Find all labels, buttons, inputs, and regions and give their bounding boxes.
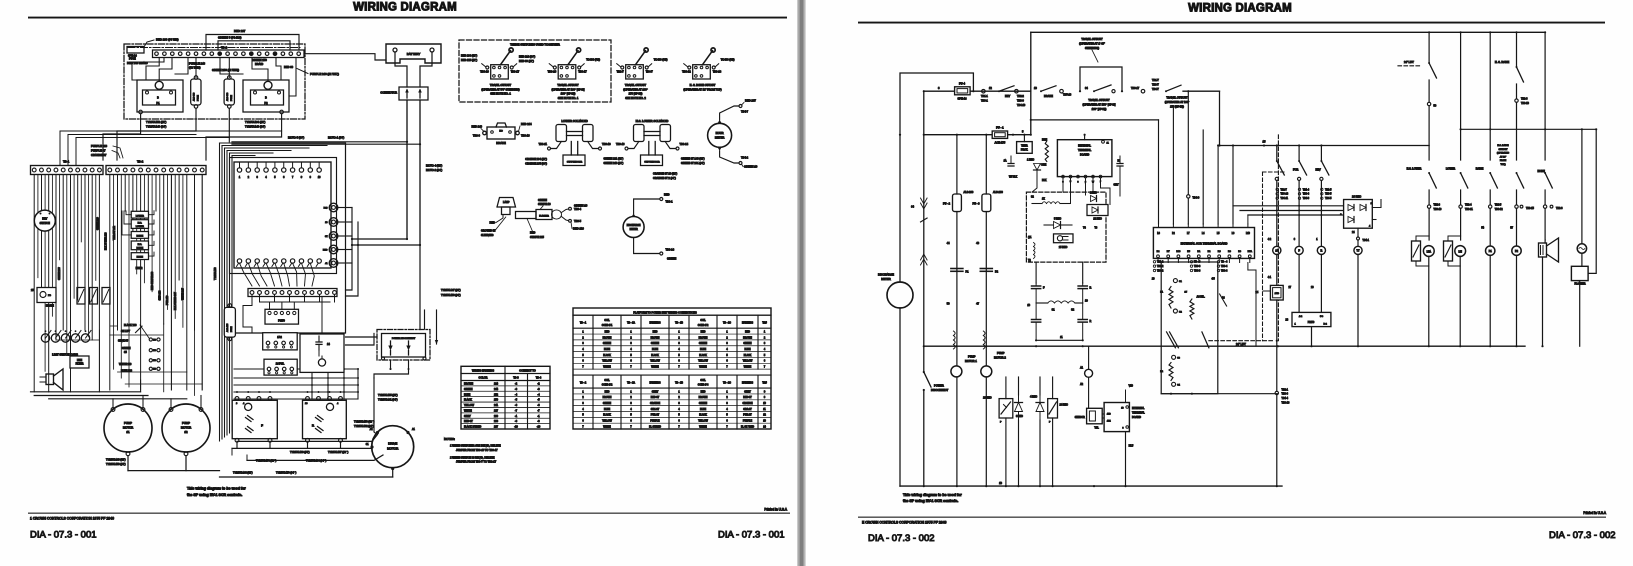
svg-text:TERMINAL: TERMINAL — [1132, 412, 1145, 415]
svg-text:LOWER: LOWER — [136, 215, 144, 217]
svg-text:MOTOR: MOTOR — [181, 426, 191, 430]
svg-text:1A: 1A — [1275, 250, 1278, 253]
svg-text:GREEN 221 (42"): GREEN 221 (42") — [604, 158, 624, 161]
svg-text:PUR 218: PUR 218 — [167, 295, 169, 305]
svg-text:TB4-3: TB4-3 — [1194, 270, 1201, 272]
wire main drop to TB2-1 — [1275, 341, 1290, 488]
relay box H.S. RAISE — [131, 241, 148, 250]
external SCR terminal board — [1153, 224, 1254, 258]
svg-text:CONNECTOR: CONNECTOR — [380, 91, 397, 95]
svg-text:GREEN ST 146 (42"): GREEN ST 146 (42") — [681, 158, 705, 161]
svg-text:PUR ST: PUR ST — [743, 415, 752, 417]
labels TYMAX below P2 — [245, 120, 266, 128]
svg-text:237: 237 — [494, 426, 499, 429]
svg-text:GREY: GREY — [744, 391, 751, 393]
feeder to terminal board rail — [1030, 119, 1159, 121]
main control wire — [923, 86, 1031, 92]
svg-text:LOWER: LOWER — [136, 226, 144, 228]
svg-text:BROWN: BROWN — [699, 397, 708, 399]
svg-text:HRN2: HRN2 — [136, 267, 143, 270]
fuse ALS-300 F2 — [224, 76, 234, 109]
wires right of 26 REC — [1372, 200, 1381, 220]
svg-text:PURPLE: PURPLE — [743, 421, 753, 423]
svg-text:TB3-14: TB3-14 — [666, 248, 675, 252]
svg-text:TB1-4: TB1-4 — [1303, 189, 1310, 191]
svg-text:TO400 (AB): TO400 (AB) — [721, 58, 735, 62]
svg-text:RED 245 BRAID: RED 245 BRAID — [127, 61, 148, 65]
svg-text:TERMINAL: TERMINAL — [1078, 148, 1092, 152]
svg-text:GREEN 208 (52 WH2): GREEN 208 (52 WH2) — [212, 68, 239, 72]
svg-text:BLACK: BLACK — [603, 414, 611, 417]
horn speaker — [40, 369, 63, 390]
svg-text:GREY: GREY — [464, 415, 471, 418]
svg-text:YELLOW 212: YELLOW 212 — [114, 225, 116, 240]
svg-text:FROM: FROM — [1500, 160, 1507, 162]
svg-text:FUSE: FUSE — [198, 95, 200, 101]
svg-text:TB3-16: TB3-16 — [616, 142, 625, 146]
svg-text:TB4-2: TB4-2 — [741, 156, 749, 160]
svg-text:TB3-1: TB3-1 — [666, 200, 674, 204]
svg-text:GREEN: GREEN — [603, 403, 612, 405]
svg-text:FU - 3: FU - 3 — [973, 203, 981, 206]
svg-text:H.S.: H.S. — [138, 223, 143, 225]
svg-text:(OPERATES AT 190°: (OPERATES AT 190° — [623, 87, 648, 91]
svg-text:Printed in U.S.A: Printed in U.S.A — [1583, 511, 1607, 515]
svg-text:RED 204 (42"): RED 204 (42") — [461, 55, 477, 58]
svg-text:TB3-14: TB3-14 — [1281, 194, 1289, 196]
rectifier 24 REC — [1048, 399, 1068, 424]
capacitor IC — [1117, 156, 1123, 196]
svg-text:TYMAX-162 (34"): TYMAX-162 (34") — [354, 425, 374, 428]
svg-text:TB3-15: TB3-15 — [1526, 207, 1535, 210]
svg-text:1A2: 1A2 — [277, 336, 282, 339]
rectifier 5 REC — [1044, 217, 1072, 228]
svg-text:METER: METER — [881, 277, 890, 281]
svg-text:JUMPER FROM TB3-7 TO TB2-17: JUMPER FROM TB3-7 TO TB2-17 — [456, 460, 497, 464]
svg-text:TB5-16: TB5-16 — [1063, 94, 1072, 97]
svg-text:P1: P1 — [156, 101, 160, 105]
svg-text:COIL: COIL — [700, 380, 706, 382]
svg-text:WHITE: WHITE — [699, 426, 707, 428]
svg-text:TYMAX-144 (42"): TYMAX-144 (42") — [233, 471, 253, 474]
svg-text:FOR: FOR — [1293, 168, 1298, 171]
svg-text:BLK: BLK — [1042, 179, 1047, 182]
svg-text:TB2-7: TB2-7 — [617, 70, 625, 74]
svg-text:GROUND IN: GROUND IN — [481, 230, 496, 233]
svg-text:22 REC: 22 REC — [1093, 217, 1102, 220]
wires TB-2 panel to center bundle — [60, 131, 282, 166]
svg-text:METER: METER — [630, 229, 638, 231]
svg-text:PURPLE 87: PURPLE 87 — [91, 148, 106, 152]
pump motor 1 — [104, 404, 152, 456]
capacitor F upper — [1032, 283, 1046, 303]
brake switch blade page2 — [1034, 86, 1072, 98]
svg-text:E CROWN CONTROLS CORPORATION: E CROWN CONTROLS CORPORATION 1975 PF 284… — [862, 521, 946, 525]
svg-text:TB2-5: TB2-5 — [1495, 204, 1502, 207]
relay box HORN — [131, 253, 148, 260]
svg-text:TB1-1: TB1-1 — [981, 95, 988, 98]
flasher box — [1571, 128, 1597, 346]
switch row blades — [1427, 172, 1552, 208]
svg-text:PURPLE 218: PURPLE 218 — [91, 144, 107, 148]
svg-text:PUMP: PUMP — [968, 355, 976, 359]
svg-text:CORD # 2: CORD # 2 — [602, 385, 613, 387]
svg-text:GRY: GRY — [1114, 184, 1120, 187]
svg-text:TYMAX-147 (32"): TYMAX-147 (32") — [441, 289, 461, 292]
svg-text:KEY: KEY — [42, 217, 47, 221]
svg-text:(OPERATES AT 12" FROM TOP): (OPERATES AT 12" FROM TOP) — [683, 87, 721, 91]
svg-text:HARNESS: HARNESS — [649, 381, 661, 384]
svg-text:FUSE: FUSE — [231, 326, 233, 332]
svg-text:HARNESS: HARNESS — [742, 322, 754, 325]
svg-text:(OPERATES AT 190° [SP40]: (OPERATES AT 190° [SP40] — [551, 87, 584, 91]
svg-text:PUR ST: PUR ST — [651, 415, 660, 417]
junction dots page1 mesh — [236, 368, 410, 393]
svg-text:TB3-5: TB3-5 — [1325, 194, 1332, 196]
svg-text:RED 214 (34"): RED 214 (34") — [519, 56, 535, 59]
svg-text:ORANGE 265 (34"): ORANGE 265 (34") — [525, 163, 547, 166]
rectifier 25 REC — [1054, 234, 1074, 249]
capacitor P1 page2 — [951, 269, 969, 274]
svg-text:KEY: KEY — [1005, 94, 1010, 98]
svg-text:TB4-10: TB4-10 — [1017, 104, 1026, 107]
wires board bottom to lower strip — [240, 263, 315, 286]
limit switch cams — [41, 330, 91, 356]
svg-text:FU - 1: FU - 1 — [996, 126, 1004, 130]
svg-text:ORANGE 87: ORANGE 87 — [91, 153, 107, 157]
svg-text:TB-2: TB-2 — [137, 160, 144, 164]
svg-text:TB4-7: TB4-7 — [1152, 88, 1159, 91]
FOR REV switch group — [1275, 144, 1332, 246]
dashed enclosure TB-2 panel — [124, 44, 305, 119]
svg-text:1 WHEN SWITCHES ARE REQ'D,: 1 WHEN SWITCHES ARE REQ'D, DELETE — [450, 444, 501, 448]
svg-text:SEE NOTE NO. 1: SEE NOTE NO. 1 — [558, 96, 579, 100]
svg-text:GREEN: GREEN — [699, 403, 708, 405]
svg-text:24" LIFT: 24" LIFT — [1236, 342, 1246, 346]
svg-text:YELLOW: YELLOW — [650, 361, 660, 363]
svg-text:BLUE: BLUE — [700, 409, 706, 411]
svg-text:BLACK: BLACK — [744, 354, 752, 357]
svg-text:GRA ST: GRA ST — [743, 408, 752, 411]
svg-text:RED: RED — [745, 331, 750, 333]
internal terminal board page2 bottom — [1102, 385, 1145, 487]
svg-text:RED ST: RED ST — [651, 397, 660, 399]
svg-text:1A: 1A — [1004, 160, 1007, 163]
svg-text:TB3-2: TB3-2 — [1157, 266, 1164, 268]
flasher circle — [1577, 129, 1586, 266]
usage note page1 — [187, 487, 246, 497]
svg-text:BLUE: BLUE — [652, 349, 658, 351]
svg-text:(52 WH2): (52 WH2) — [189, 65, 201, 69]
svg-text:BLACK 230: BLACK 230 — [124, 324, 137, 327]
svg-text:TB3-12: TB3-12 — [1495, 208, 1504, 211]
svg-text:(OPERATES AT 5'8" STEERING): (OPERATES AT 5'8" STEERING) — [481, 87, 519, 91]
svg-text:TB4-4: TB4-4 — [1282, 397, 1289, 400]
svg-text:NOTES:: NOTES: — [444, 437, 455, 441]
relay box LOWER — [131, 211, 148, 218]
svg-text:SLEEVING: SLEEVING — [481, 234, 494, 237]
travel cutout switch with bypass loop — [1079, 37, 1123, 111]
svg-text:160° [SP42]): 160° [SP42]) — [1092, 107, 1107, 111]
svg-text:BLUE: BLUE — [744, 349, 750, 351]
page 1 title underline — [28, 17, 787, 19]
svg-text:RED ST: RED ST — [743, 397, 752, 399]
terminal strip TB-2 left — [106, 160, 206, 175]
svg-text:V10: V10 — [1129, 385, 1134, 388]
svg-text:FILTER: FILTER — [76, 364, 84, 366]
relay 1AD — [1256, 285, 1284, 341]
wires rectifier bank to buses — [1006, 377, 1053, 486]
svg-text:SEE NOTE NO. 2: SEE NOTE NO. 2 — [625, 96, 646, 100]
wire bundle left of SCR panel — [214, 143, 345, 441]
svg-text:BL ST/RED: BL ST/RED — [649, 426, 661, 428]
svg-text:TB - 1A: TB - 1A — [627, 322, 635, 325]
svg-text:HOUR: HOUR — [716, 131, 724, 135]
svg-text:SPE-14: SPE-14 — [958, 97, 967, 101]
svg-text:RED 244: RED 244 — [521, 122, 532, 126]
wires inside TB-2 panel — [132, 58, 296, 97]
wire 15 distribution — [1217, 91, 1429, 224]
svg-text:GREY: GREY — [652, 391, 659, 393]
svg-text:TB2-3: TB2-3 — [1434, 204, 1441, 207]
svg-text:POWER DISCONNECT: POWER DISCONNECT — [392, 338, 416, 340]
left block horizontal jogs — [56, 335, 202, 384]
svg-text:PUMP: PUMP — [997, 351, 1005, 355]
coil 1A — [1268, 239, 1281, 285]
svg-text:GREEN 208: GREEN 208 — [59, 267, 61, 280]
horn symbol page2 — [1539, 208, 1559, 347]
svg-text:TB4-9: TB4-9 — [1193, 197, 1200, 200]
bottom bus page2 — [900, 482, 1282, 487]
svg-text:SILVE 85: SILVE 85 — [118, 340, 129, 343]
svg-text:RED: RED — [605, 331, 610, 333]
small harness table — [461, 366, 550, 429]
svg-text:LAMP: LAMP — [503, 201, 510, 204]
dashed box THESE SWITCHES USED TOGETHER — [459, 40, 611, 102]
svg-text:TB-1: TB-1 — [63, 160, 70, 164]
terminal strip TB-2 — [128, 45, 304, 57]
svg-text:252: 252 — [494, 393, 499, 396]
switch row labels — [1407, 144, 1545, 173]
svg-text:POWER: POWER — [934, 383, 944, 387]
mid horizontal bus — [923, 345, 1525, 347]
svg-text:This wiring diagram to be used: This wiring diagram to be used for — [187, 487, 246, 491]
svg-text:GREEN: GREEN — [667, 257, 676, 261]
svg-text:RED: RED — [490, 221, 496, 225]
svg-text:RED 116: RED 116 — [573, 227, 584, 231]
svg-text:TB - 1: TB - 1 — [580, 323, 587, 325]
svg-text:THER: THER — [1021, 145, 1028, 148]
svg-text:TB3-17: TB3-17 — [1131, 87, 1140, 90]
svg-text:TB-4: TB-4 — [536, 377, 542, 380]
svg-text:TB4-5: TB4-5 — [1325, 198, 1332, 200]
svg-text:WIRING DIAGRAM: WIRING DIAGRAM — [353, 2, 457, 14]
svg-text:TB3-18: TB3-18 — [1282, 402, 1291, 405]
svg-text:BROWN: BROWN — [743, 337, 752, 339]
svg-text:TB2-6: TB2-6 — [1556, 207, 1563, 210]
svg-text:TYMAX-148 (42"): TYMAX-148 (42") — [106, 458, 126, 461]
fuse FU-1 ACE-175 — [923, 126, 1032, 145]
svg-text:PLATFORM TO POWER UNIT: PLATFORM TO POWER UNIT WIRING CONNECTION… — [633, 311, 697, 314]
connector — [380, 87, 428, 100]
svg-text:BLACK: BLACK — [651, 354, 659, 357]
svg-text:PURPLE 246 (52 W17): PURPLE 246 (52 W17) — [310, 72, 339, 76]
H.S. raise cutout switch top — [1495, 60, 1530, 160]
junction mesh below panel — [234, 368, 359, 399]
wires pump motors — [113, 396, 220, 471]
svg-text:TRAVEL CUTOUT: TRAVEL CUTOUT — [625, 83, 647, 87]
wire flasher to bus — [0, 0, 1, 1]
svg-text:H. S. RAISE CUTOUT: H. S. RAISE CUTOUT — [690, 83, 716, 87]
wires lower strip to modules — [243, 295, 335, 335]
svg-text:DISCHARGE: DISCHARGE — [627, 224, 641, 227]
svg-text:RAISE: RAISE — [137, 247, 144, 250]
svg-text:TYMAX-150 (34"): TYMAX-150 (34") — [441, 294, 461, 297]
svg-text:GREEN 250: GREEN 250 — [252, 58, 267, 62]
contact stack with color labels — [118, 324, 160, 373]
svg-text:GREEN ST 201 (34"): GREEN ST 201 (34") — [681, 162, 705, 165]
svg-text:YEL: YEL — [1094, 428, 1099, 430]
svg-text:WHITE: WHITE — [651, 367, 659, 369]
svg-text:HORN: HORN — [137, 257, 144, 259]
svg-text:2 WHEN SWITCH IS REQ'D, DEL: 2 WHEN SWITCH IS REQ'D, DELETE — [450, 455, 495, 459]
junction dots mid bus — [955, 345, 1083, 347]
svg-text:BOARD: BOARD — [1080, 153, 1089, 157]
toggle switch travel cutout 1 — [461, 48, 535, 96]
svg-text:TB3-1: TB3-1 — [981, 100, 988, 103]
svg-text:TRAVEL CUTOUT: TRAVEL CUTOUT — [490, 83, 512, 87]
svg-text:RED 206 (54 WH): RED 206 (54 WH) — [156, 38, 179, 42]
fuse ALS-300 F1 — [191, 76, 201, 109]
svg-text:BOARD: BOARD — [1132, 416, 1141, 419]
svg-text:TB - 4: TB - 4 — [1221, 262, 1228, 264]
svg-text:YELLOW: YELLOW — [743, 361, 753, 363]
svg-text:YELLOW: YELLOW — [698, 361, 708, 363]
sensor box — [1075, 408, 1103, 429]
module 24 PML — [264, 359, 297, 375]
terminal strip TB-1 — [31, 160, 104, 175]
svg-text:CUTOUT: CUTOUT — [1499, 149, 1509, 151]
svg-text:CORD # 2: CORD # 2 — [698, 325, 709, 327]
svg-text:SEE NOTE NO. 1: SEE NOTE NO. 1 — [490, 92, 511, 96]
svg-text:(OPERATES AT 150° [SP42]: (OPERATES AT 150° [SP42] — [1082, 102, 1115, 106]
svg-text:ORANGE 204 (42"): ORANGE 204 (42") — [525, 158, 547, 161]
svg-text:TB4-4: TB4-4 — [1221, 270, 1228, 272]
svg-text:YELLOW: YELLOW — [602, 361, 612, 363]
svg-text:GREEN: GREEN — [743, 343, 752, 345]
fuse blocks F R — [77, 288, 110, 305]
usage note page2 — [903, 493, 962, 503]
svg-text:TB4-11: TB4-11 — [1281, 198, 1289, 200]
rotated wire color labels — [59, 217, 185, 310]
svg-text:JUMPER FROM TB3-16 TO TB3-: JUMPER FROM TB3-16 TO TB3-17 — [456, 448, 498, 452]
svg-text:L5A: L5A — [1427, 250, 1432, 253]
svg-text:GREEN: GREEN — [699, 343, 708, 345]
svg-text:RED: RED — [664, 193, 670, 197]
capacitor module 14 — [300, 334, 344, 372]
svg-text:Printed in U.S.A: Printed in U.S.A — [764, 508, 788, 512]
svg-text:24 REC: 24 REC — [1060, 403, 1069, 406]
pump motor labels — [106, 458, 126, 466]
svg-text:(OPERATES: (OPERATES — [1497, 152, 1510, 155]
svg-text:GRA ST: GRA ST — [651, 408, 660, 411]
svg-text:This wiring diagram to be used: This wiring diagram to be used for — [903, 493, 962, 497]
svg-text:BRAKE: BRAKE — [1044, 94, 1053, 98]
svg-text:H. S. RAISE: H. S. RAISE — [1495, 60, 1510, 64]
svg-text:TRAVEL CUTOUT: TRAVEL CUTOUT — [1166, 96, 1188, 100]
capacitor P2 page2 — [980, 269, 998, 274]
svg-text:RED 237: RED 237 — [234, 29, 246, 33]
svg-text:250: 250 — [494, 399, 499, 402]
svg-text:RED 246: RED 246 — [471, 125, 482, 129]
svg-text:#1: #1 — [126, 430, 130, 434]
terminal labels row — [1434, 204, 1564, 230]
svg-text:BROWN: BROWN — [651, 337, 660, 339]
label PURPLE 248 (52 WH2) — [189, 61, 205, 69]
extra left verticals — [38, 175, 202, 396]
svg-text:RAISE: RAISE — [137, 234, 144, 237]
svg-text:REV: REV — [1316, 168, 1321, 171]
coil L5A with resistor — [1412, 208, 1435, 347]
svg-text:COIL: COIL — [700, 320, 706, 322]
svg-text:AT 12": AT 12" — [1500, 155, 1507, 158]
drive motor lead labels — [233, 289, 461, 474]
svg-text:COIL: COIL — [604, 380, 610, 382]
svg-text:TYMAX-155 (42"): TYMAX-155 (42") — [378, 394, 398, 397]
svg-text:ORANGE: ORANGE — [743, 402, 753, 405]
page gutter (book binding) — [797, 0, 806, 566]
power disconnect switch page2 — [923, 371, 949, 486]
svg-text:DIA - 07.3 - 001: DIA - 07.3 - 001 — [30, 530, 97, 541]
svg-text:BRAID: BRAID — [255, 62, 263, 66]
svg-text:WHITE: WHITE — [603, 367, 611, 369]
svg-text:WHITE: WHITE — [744, 367, 752, 369]
svg-text:LOWER: LOWER — [1446, 167, 1455, 170]
rectifier bridge 26 REC — [1340, 194, 1372, 246]
module PMT0 page2 — [1285, 312, 1330, 347]
svg-text:STRIPE 225: STRIPE 225 — [530, 236, 545, 239]
power disconnect page1 — [377, 330, 430, 361]
thermal protector — [1017, 134, 1033, 154]
rectifier 22 REC — [1087, 205, 1108, 221]
rectifier 3 REC diode — [1015, 395, 1024, 420]
hour meter — [708, 99, 758, 169]
svg-text:TB3-10: TB3-10 — [1434, 208, 1443, 211]
svg-text:R: R — [1090, 320, 1092, 323]
svg-text:TO400 (AB): TO400 (AB) — [586, 58, 600, 62]
svg-text:TB - 2A: TB - 2A — [627, 381, 635, 384]
svg-text:238: 238 — [494, 420, 499, 423]
svg-text:R: R — [1321, 250, 1323, 253]
svg-text:TB3-4: TB3-4 — [1221, 266, 1228, 268]
svg-text:CORD # 4: CORD # 4 — [698, 385, 709, 387]
svg-text:ORANGE ST 2 (34"): ORANGE ST 2 (34") — [653, 177, 676, 180]
svg-text:(OPERATES AT 190°: (OPERATES AT 190° — [1165, 100, 1190, 104]
svg-text:25 REC: 25 REC — [1059, 246, 1068, 249]
svg-text:BLU: BLU — [1129, 445, 1134, 448]
svg-text:TB3-16: TB3-16 — [521, 134, 530, 138]
svg-text:COLOR: COLOR — [479, 377, 488, 380]
svg-text:ALS 300: ALS 300 — [226, 92, 229, 101]
svg-text:TYMAX-140 (34"): TYMAX-140 (34") — [245, 124, 266, 128]
wires mid bus to rectifier bank — [0, 0, 1, 1]
svg-text:MOTO-4 (42"): MOTO-4 (42") — [426, 164, 442, 168]
svg-text:276 [SP40]): 276 [SP40]) — [1170, 104, 1184, 108]
svg-text:H.S. LOWER SOLENOID: H.S. LOWER SOLENOID — [636, 119, 669, 123]
right bank rails from top bus — [1428, 31, 1546, 160]
svg-text:TB3-9: TB3-9 — [473, 134, 481, 138]
svg-text:TYMAX-156 (42 "): TYMAX-156 (42 ") — [354, 421, 375, 424]
